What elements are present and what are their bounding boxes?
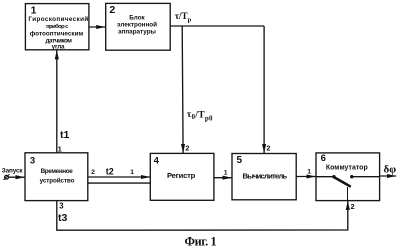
block 4 Регистр	[150, 153, 214, 200]
svg-text:Коммутатор: Коммутатор	[326, 164, 368, 171]
svg-text:2: 2	[351, 202, 355, 211]
svg-text:1: 1	[307, 169, 311, 176]
switch contact dots	[332, 175, 335, 178]
svg-text:Блок: Блок	[129, 15, 145, 22]
wire branch down into block4 pin2 tau0/Tp0	[181, 26, 184, 153]
svg-text:3: 3	[59, 202, 64, 211]
svg-text:2: 2	[109, 4, 115, 16]
wire switch control inside block6	[347, 187, 349, 201]
svg-text:1: 1	[31, 5, 37, 17]
svg-text:5: 5	[237, 155, 243, 166]
svg-text:прибор с: прибор с	[46, 23, 69, 30]
svg-text:4: 4	[154, 155, 160, 166]
svg-text:устройство: устройство	[40, 176, 75, 184]
wire Запуск input	[5, 175, 9, 179]
wire t3 block3 bottom around to block6 pin2	[57, 201, 348, 231]
svg-text:6: 6	[321, 153, 326, 164]
wire block1 to block2	[89, 26, 106, 28]
wire down into block5 pin2	[263, 26, 265, 153]
svg-text:фотооптическим: фотооптическим	[30, 30, 84, 37]
svg-text:Регистр: Регистр	[167, 171, 196, 180]
svg-text:Фиг. 1: Фиг. 1	[185, 234, 217, 247]
svg-text:3: 3	[30, 156, 35, 167]
svg-text:t3: t3	[58, 212, 67, 224]
wire t2 block3 to block4	[88, 176, 150, 178]
wire t1 block3 to block1	[56, 50, 58, 153]
block3 text	[40, 168, 75, 185]
switch arm	[334, 177, 351, 187]
svg-text:Вычислитель: Вычислитель	[243, 171, 288, 180]
svg-text:τ0/Tр0: τ0/Tр0	[187, 109, 213, 123]
wire into switch left contact	[316, 176, 332, 178]
block 1 Гироскопический прибор	[25, 4, 89, 50]
svg-text:Временное: Временное	[41, 168, 74, 175]
wire block4 to block5	[214, 177, 232, 179]
block1 text	[28, 15, 88, 50]
wire second line below t2	[88, 182, 151, 184]
svg-text:δφ: δφ	[384, 164, 397, 176]
block 5 Вычислитель	[232, 154, 296, 200]
svg-text:аппаратуры: аппаратуры	[118, 28, 156, 35]
wire from switch right contact	[353, 176, 379, 178]
svg-text:2: 2	[185, 143, 189, 152]
svg-text:Гироскопический: Гироскопический	[28, 15, 88, 23]
svg-text:t2: t2	[106, 166, 114, 176]
svg-text:1: 1	[224, 169, 228, 176]
block2 text	[117, 15, 157, 36]
svg-text:1: 1	[58, 145, 62, 154]
block 6 Коммутатор	[316, 153, 380, 201]
wire block2 output horizontal tau/Tp	[170, 25, 264, 27]
svg-text:угла: угла	[52, 43, 65, 50]
svg-text:2: 2	[91, 169, 95, 176]
block 2 Блок электронной аппаратуры	[106, 3, 171, 50]
block 3 Временное устройство	[25, 153, 88, 201]
svg-text:2: 2	[266, 143, 270, 152]
svg-text:t1: t1	[60, 129, 69, 141]
wire block5 to block6	[296, 176, 316, 178]
svg-text:Запуск: Запуск	[2, 167, 24, 174]
svg-text:τ/Tр: τ/Tр	[175, 11, 192, 24]
wire block6 output delta-phi	[380, 175, 397, 177]
svg-text:1: 1	[130, 169, 134, 176]
